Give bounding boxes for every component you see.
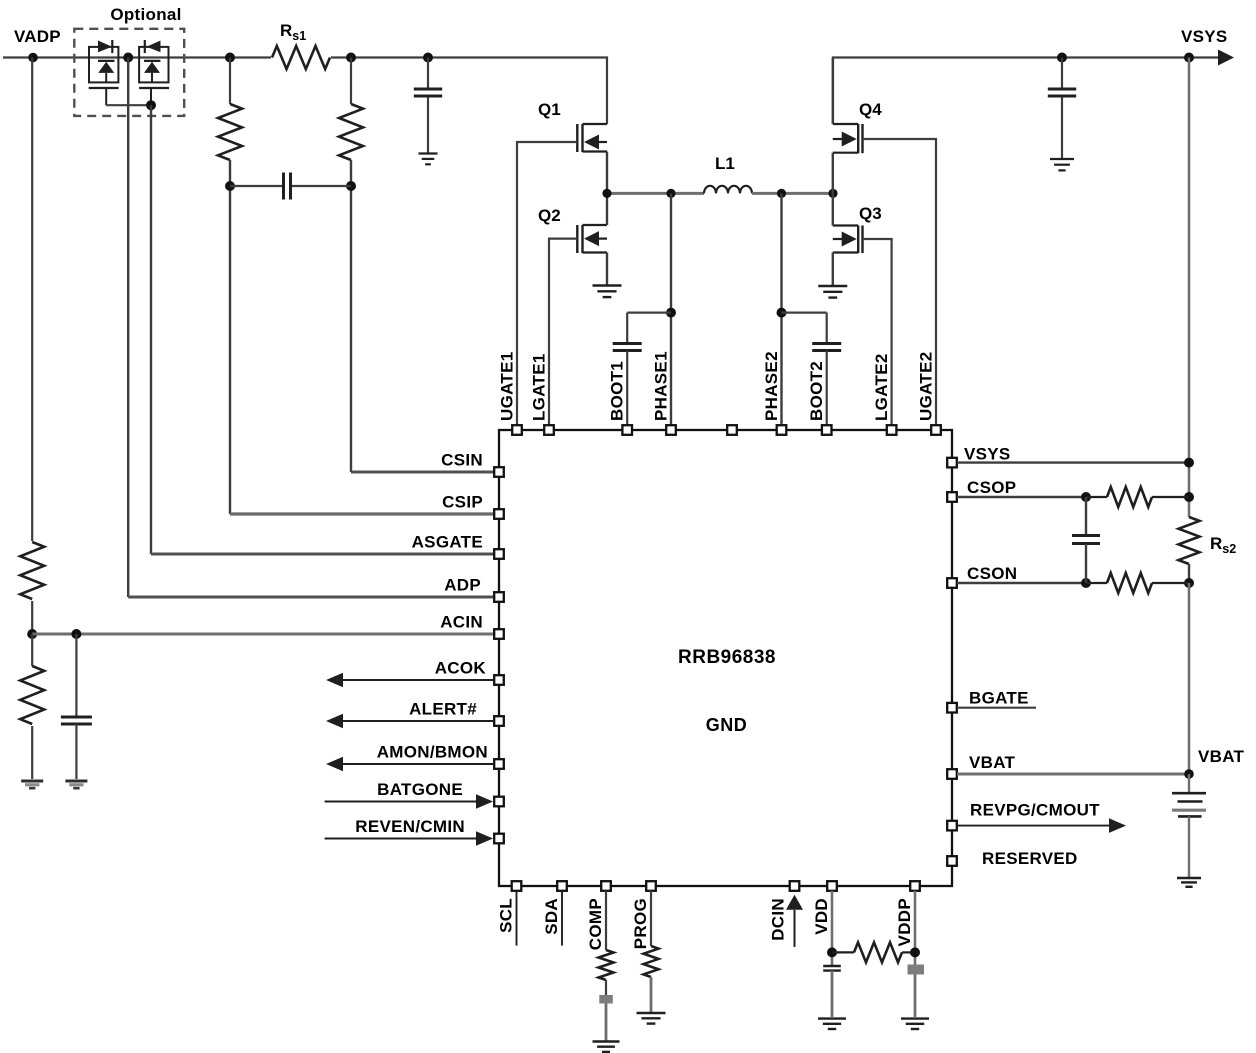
wire Q2 drain to phase node — [606, 193, 608, 225]
resistor input divider CSIN side — [339, 104, 363, 160]
svg-text:VSYS: VSYS — [964, 445, 1011, 464]
svg-text:REVPG/CMOUT: REVPG/CMOUT — [970, 801, 1100, 820]
arrow REVPG/CMOUT — [1109, 818, 1126, 833]
junction VBAT at battery — [1184, 769, 1194, 779]
wire BGATE stub — [957, 707, 1036, 709]
ground ACIN divider — [21, 780, 43, 783]
pin BATGONE (left) — [494, 797, 504, 807]
svg-text:VBAT: VBAT — [969, 753, 1016, 772]
pin ACOK (left) — [494, 675, 504, 685]
capacitor VSYS output bypass — [1048, 88, 1076, 91]
wire VADP input rail — [3, 58, 607, 125]
wire UGATE1 net — [517, 142, 577, 425]
transistor Q2 — [576, 225, 578, 253]
svg-text:ACOK: ACOK — [435, 659, 487, 678]
svg-text:BOOT2: BOOT2 — [807, 361, 826, 421]
pin VSYS (right) — [947, 458, 957, 468]
diode optional FET right top diode — [147, 41, 161, 53]
wire optional FET right gate bar — [139, 87, 169, 89]
resistor COMP compensation — [599, 950, 614, 980]
pin CSOP (right) — [947, 492, 957, 502]
ground ACIN filter cap — [65, 780, 87, 783]
svg-text:UGATE2: UGATE2 — [917, 352, 936, 422]
junction CSIP filter node — [225, 181, 235, 191]
inductor L1 — [704, 186, 752, 194]
svg-text:PHASE2: PHASE2 — [762, 351, 781, 421]
svg-text:COMP: COMP — [586, 898, 605, 950]
junction on rail at input cap — [423, 53, 433, 63]
svg-text:REVEN/CMIN: REVEN/CMIN — [355, 817, 465, 836]
junction ACIN cap tap — [71, 629, 81, 639]
capacitor BOOT2 bootstrap — [812, 342, 841, 345]
junction VSYS column at VSYS pin wire — [1184, 458, 1194, 468]
svg-text:Optional: Optional — [110, 5, 181, 24]
IC U1 RRB96838 body — [499, 430, 952, 886]
pin AMON/BMON (left) — [494, 759, 504, 769]
junction phase2 at PHASE2 pin line — [777, 189, 786, 198]
capacitor VDDP bypass — [908, 965, 925, 975]
capacitor BOOT1 bootstrap — [613, 342, 642, 345]
svg-text:L1: L1 — [715, 154, 735, 173]
wire SCL stub — [516, 891, 518, 946]
svg-text:Q4: Q4 — [859, 100, 882, 119]
wire SDA stub — [561, 891, 563, 946]
resistor CSON filter — [1086, 582, 1107, 584]
arrow BATGONE — [476, 794, 493, 809]
wire BOOT1 link — [627, 313, 671, 343]
svg-text:LGATE2: LGATE2 — [872, 353, 891, 421]
junction phase1 at Q1/Q2 — [602, 189, 611, 198]
junction ACIN node — [27, 629, 37, 639]
svg-text:DCIN: DCIN — [769, 898, 788, 941]
wire CSIP-CSIN filter link — [230, 185, 351, 187]
wire Q2 source to ground — [606, 253, 608, 286]
wire COMP branch — [605, 891, 607, 950]
svg-text:LGATE1: LGATE1 — [530, 353, 549, 421]
pin PROG (bottom) — [646, 881, 656, 891]
wire VSYS column — [1188, 58, 1191, 518]
wire ASGATE net — [150, 105, 152, 554]
wire inductor to phase2 — [752, 192, 833, 195]
diode optional FET left body diode — [98, 60, 114, 62]
pin BOOT1 (top) — [622, 425, 632, 435]
svg-text:CSOP: CSOP — [967, 478, 1016, 497]
svg-text:CSIN: CSIN — [441, 451, 483, 470]
wire CSIN column upper — [350, 58, 352, 105]
pin ALERT# (left) — [494, 716, 504, 726]
wire UGATE2 net — [863, 139, 937, 425]
wire BATGONE input — [325, 801, 478, 803]
junction on rail at CSIN tap — [346, 53, 356, 63]
pin VDD (bottom) — [827, 881, 837, 891]
wire REVPG/CMOUT output — [957, 825, 1110, 827]
svg-text:VSYS: VSYS — [1181, 27, 1228, 46]
diode optional FET right body diode — [144, 60, 160, 62]
pin LGATE1 (top) — [544, 425, 554, 435]
wire optional gates common net — [106, 104, 151, 106]
wire Q3 source to ground — [832, 253, 834, 287]
svg-text:Q2: Q2 — [538, 206, 561, 225]
wire input cap branch — [427, 58, 429, 89]
wire VSYS pin to rail column — [957, 461, 1189, 463]
pin LGATE2 (top) — [887, 425, 897, 435]
wire PHASE2 pin net — [780, 193, 782, 425]
transistor Q1 — [576, 124, 578, 152]
wire Q1 source to phase node — [606, 152, 608, 194]
svg-text:BGATE: BGATE — [969, 689, 1029, 708]
junction CSIN filter node — [346, 181, 356, 191]
pin REVEN/CMIN (left) — [494, 834, 504, 844]
wire phase1 to inductor — [607, 192, 704, 195]
capacitor ACIN filter — [75, 634, 77, 716]
svg-text:SCL: SCL — [497, 898, 516, 933]
junction VSYS rail at VSYS column — [1184, 53, 1194, 63]
junction BOOT2 tap on PHASE2 — [777, 308, 787, 318]
battery BT1 — [1188, 774, 1190, 792]
capacitor COMP compensation — [599, 995, 613, 1004]
svg-text:VDDP: VDDP — [895, 898, 914, 946]
junction CSON filter node — [1081, 578, 1091, 588]
ground VDD cap — [818, 1017, 846, 1019]
arrow ALERT# — [326, 714, 343, 729]
svg-text:CSON: CSON — [967, 564, 1017, 583]
svg-text:PROG: PROG — [631, 898, 650, 949]
pin CSIN (left) — [494, 467, 504, 477]
transistor Q4 — [861, 124, 863, 153]
pin CSIP (left) — [494, 509, 504, 519]
svg-text:RRB96838: RRB96838 — [678, 647, 776, 668]
svg-text:VDD: VDD — [812, 898, 831, 935]
junction phase2 at Q3/Q4 — [828, 189, 837, 198]
wire PHASE1 pin net — [670, 193, 672, 425]
arrow REVEN/CMIN — [476, 831, 493, 846]
svg-text:ADP: ADP — [444, 576, 481, 595]
svg-text:BOOT1: BOOT1 — [608, 361, 627, 421]
wire LGATE2 net — [863, 239, 892, 425]
resistor ACIN divider top — [20, 542, 44, 599]
svg-text:BATGONE: BATGONE — [377, 780, 463, 799]
junction BOOT1 tap on PHASE1 — [666, 308, 676, 318]
resistor Rs1 — [272, 46, 330, 69]
transistor optional FET right body — [139, 47, 168, 83]
arrow DCIN input — [786, 895, 803, 910]
pin COMP (bottom) — [601, 881, 611, 891]
wire Q3 drain to phase node — [832, 193, 834, 225]
wire CSIN net — [350, 160, 352, 472]
wire battery column — [1188, 583, 1191, 774]
resistor ACIN divider bottom — [31, 634, 33, 666]
capacitor VDD bypass — [823, 965, 841, 967]
svg-text:ASGATE: ASGATE — [412, 533, 483, 552]
svg-text:UGATE1: UGATE1 — [498, 352, 517, 422]
svg-text:Q1: Q1 — [538, 100, 561, 119]
diode optional FET left top diode — [98, 41, 112, 53]
transistor optional FET left body — [89, 47, 118, 83]
pin SCL (bottom) — [512, 881, 522, 891]
wire CSON net — [957, 582, 1086, 584]
pin PHASE1 (top) — [666, 425, 676, 435]
wire Q4 drain to VSYS rail — [832, 58, 834, 125]
ground VSYS output cap — [1050, 158, 1074, 160]
svg-text:RESERVED: RESERVED — [982, 849, 1078, 868]
junction on rail at VADP tap — [28, 53, 38, 63]
wire REVEN/CMIN input — [325, 838, 478, 840]
wire VDDP branch — [914, 891, 917, 965]
ground Q3 source — [818, 285, 847, 287]
junction optional gate net — [146, 100, 156, 110]
wire VDD branch — [831, 891, 834, 966]
wire CSIP column upper — [229, 58, 231, 105]
wire ACIN net — [32, 633, 494, 636]
pin UGATE2 (top) — [931, 425, 941, 435]
junction VSYS column at CSON — [1184, 578, 1194, 588]
ground battery — [1177, 877, 1201, 879]
resistor VDD-VDDP link — [854, 942, 902, 962]
wire CSOP net — [957, 496, 1086, 498]
svg-text:AMON/BMON: AMON/BMON — [377, 743, 488, 762]
svg-text:PHASE1: PHASE1 — [652, 351, 671, 421]
wire Q4 source to phase node — [832, 153, 834, 194]
capacitor input bypass — [414, 88, 442, 91]
svg-text:Q3: Q3 — [859, 204, 882, 223]
wire ADP net — [127, 58, 129, 598]
svg-text:SDA: SDA — [542, 898, 561, 935]
junction VSYS column at CSOP — [1184, 492, 1194, 502]
svg-text:VBAT: VBAT — [1198, 747, 1245, 766]
transistor Q3 — [861, 226, 863, 254]
svg-text:GND: GND — [706, 715, 748, 735]
junction ADP tap inside optional box — [123, 53, 133, 63]
arrow VSYS output — [1218, 50, 1234, 66]
pin VDDP (bottom) — [910, 881, 920, 891]
wire VSYS output rail — [833, 58, 1229, 125]
svg-text:ALERT#: ALERT# — [409, 700, 477, 719]
resistor PROG setting — [644, 946, 659, 977]
wire AMON/BMON output — [342, 763, 494, 765]
dashed box Optional — [74, 29, 184, 116]
ground Q2 source — [593, 284, 622, 286]
pin CSON (right) — [947, 578, 957, 588]
pin UGATE1 (top) — [512, 425, 522, 435]
pin NC (top) — [727, 425, 737, 435]
pin PHASE2 (top) — [777, 425, 787, 435]
wire ALERT# output — [342, 720, 494, 722]
ground input bypass cap — [419, 152, 438, 154]
ground VDDP cap — [901, 1017, 929, 1019]
pin BOOT2 (top) — [822, 425, 832, 435]
svg-text:CSIP: CSIP — [442, 493, 483, 512]
wire DCIN stub — [794, 910, 796, 947]
wire VADP sense column — [31, 58, 33, 542]
junction VDDP filter node — [910, 947, 920, 957]
pin VBAT (right) — [947, 769, 957, 779]
junction VDD filter node — [827, 947, 837, 957]
pin ACIN (left) — [494, 629, 504, 639]
arrow AMON/BMON — [326, 757, 343, 772]
capacitor CSOP-CSON filter — [1085, 497, 1087, 535]
wire CSIP net — [229, 160, 231, 514]
svg-text:VADP: VADP — [14, 27, 61, 46]
svg-text:ACIN: ACIN — [440, 613, 483, 632]
pin RESERVED (right) — [947, 856, 957, 866]
wire output cap branch — [1061, 58, 1063, 89]
pin ADP (left) — [494, 592, 504, 602]
wire PROG branch — [650, 891, 652, 946]
wire optional FET left gate bar — [89, 87, 119, 89]
pin DCIN (bottom) — [790, 881, 800, 891]
junction phase1 at PHASE1 pin line — [666, 189, 675, 198]
wire VBAT net — [957, 773, 1189, 776]
junction VSYS rail at output cap — [1057, 53, 1067, 63]
pin BGATE (right) — [947, 703, 957, 713]
resistor Rs2 — [1179, 517, 1200, 564]
junction CSOP filter node — [1081, 492, 1091, 502]
resistor CSOP filter — [1086, 496, 1107, 498]
junction on rail at CSIP tap — [225, 53, 235, 63]
resistor input divider CSIP side — [218, 104, 242, 160]
pin REVPG/CMOUT (right) — [947, 821, 957, 831]
pin ASGATE (left) — [494, 549, 504, 559]
wire BOOT2 link — [782, 313, 827, 343]
ground COMP network — [593, 1040, 620, 1042]
capacitor CSIP-CSIN filter — [282, 173, 285, 200]
wire ACOK output — [342, 679, 494, 681]
arrow ACOK — [326, 673, 343, 688]
ground PROG resistor — [637, 1012, 666, 1014]
pin SDA (bottom) — [557, 881, 567, 891]
wire LGATE1 net — [549, 239, 577, 425]
